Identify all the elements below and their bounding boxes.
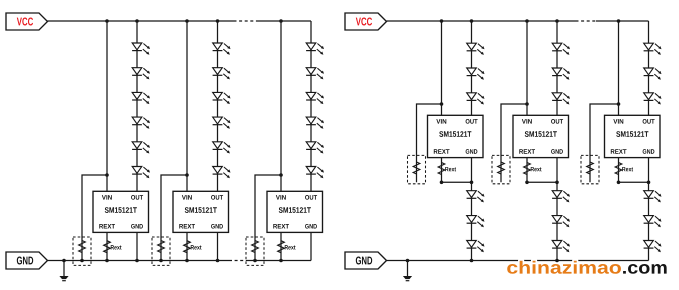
U3 pin label OUT bbox=[305, 195, 317, 200]
U1 pin label VIN bbox=[102, 195, 112, 199]
LED D33 bbox=[644, 93, 662, 105]
node GND-stem junction (left) (junction) bbox=[62, 259, 66, 263]
wire VCC bus (left, break) (dashed continuation) bbox=[234, 20, 259, 22]
U4 pin label VIN bbox=[436, 119, 446, 123]
U1 pin label OUT bbox=[131, 195, 143, 200]
LED D13 bbox=[306, 43, 324, 55]
wire VCC bus to VIN of U1 bbox=[106, 21, 108, 191]
node VIN U4 / optional resistor tap (junction) bbox=[440, 102, 444, 106]
IC U6 SM15121T bbox=[605, 115, 661, 157]
U2 pin label REXT bbox=[179, 224, 195, 228]
wire U6 VIN node to optional resistor R6 bbox=[590, 104, 619, 182]
LED D18 bbox=[306, 167, 324, 179]
wire REXT of U5 to Rext5 bbox=[527, 158, 557, 183]
node VIN U1 / optional resistor tap (junction) bbox=[105, 173, 109, 177]
node lower LED string 2 / GND bus (junction) bbox=[555, 259, 559, 263]
resistor Rext5 bbox=[524, 163, 531, 175]
U4 pin label GND bbox=[466, 149, 478, 154]
resistor R4 (optional) bbox=[413, 162, 420, 174]
LED D30 bbox=[552, 241, 570, 253]
ground symbol right bbox=[403, 261, 412, 281]
wire GND bus (left, segment 1) bbox=[48, 260, 230, 262]
wire VCC bus to VIN of U3 bbox=[280, 21, 282, 191]
node GND U5 / lifted-GND node (junction) bbox=[555, 181, 559, 185]
LED D15 bbox=[306, 92, 324, 104]
wire LED string 3 (anode rail down to OUT of U3) bbox=[310, 21, 312, 191]
IC U5 SM15121T bbox=[513, 115, 569, 157]
node GND U4 / lifted-GND node (junction) bbox=[470, 181, 474, 185]
wire REXT of U6 to Rext6 bbox=[619, 158, 649, 183]
LED D12 bbox=[213, 167, 231, 179]
U3 part name SM15121T bbox=[279, 207, 311, 213]
wire REXT of U4 to Rext4 bbox=[442, 158, 472, 183]
node lower LED string 1 / GND bus (junction) bbox=[470, 259, 474, 263]
wire VCC bus to VIN of U4 bbox=[441, 21, 443, 115]
U6 pin label GND bbox=[643, 149, 655, 154]
LED D1 bbox=[132, 43, 150, 55]
U1 part name SM15121T bbox=[105, 207, 137, 213]
wire GND of U1 to GND bus bbox=[136, 232, 138, 260]
IC U4 SM15121T bbox=[428, 115, 484, 157]
LED D34 bbox=[644, 191, 662, 203]
LED D27 bbox=[552, 93, 570, 105]
node Rext2 to GND bus (junction) bbox=[185, 259, 189, 263]
dashed box (optional) around R2 bbox=[152, 237, 170, 265]
node VIN U5 / optional resistor tap (junction) bbox=[525, 102, 529, 106]
U3 pin label VIN bbox=[276, 195, 286, 199]
U1 pin label REXT bbox=[99, 224, 115, 228]
power flag PWR3 (VCC) bbox=[345, 13, 387, 30]
LED D28 bbox=[552, 191, 570, 203]
watermark chinazimao.com bbox=[507, 261, 666, 274]
wire VCC bus (right, segment 1) bbox=[387, 20, 576, 22]
U5 part name SM15121T bbox=[525, 131, 557, 137]
node VCC bus / VIN U3 (junction) bbox=[279, 19, 283, 23]
node VCC bus / VIN U4 (junction) bbox=[440, 19, 444, 23]
IC U2 SM15121T bbox=[173, 191, 229, 232]
wire GND bus (left, break) (dashed continuation) bbox=[229, 260, 247, 262]
U2 part name SM15121T bbox=[185, 207, 217, 213]
node Rext6 / lifted-GND node (junction) bbox=[617, 181, 621, 185]
node Rext5 / lifted-GND node (junction) bbox=[525, 181, 529, 185]
wire U3 VIN node to optional resistor R3 bbox=[255, 175, 281, 261]
U3 pin label GND bbox=[305, 224, 317, 229]
node GND U2 / GND bus (junction) bbox=[216, 259, 220, 263]
value label Rext of Rext3 bbox=[285, 245, 296, 249]
wire GND of U5 to lower LED string 2 bbox=[556, 158, 558, 261]
LED D6 bbox=[132, 167, 150, 179]
LED D22 bbox=[467, 191, 485, 203]
value label Rext of Rext1 bbox=[111, 245, 122, 249]
U1 pin label GND bbox=[131, 224, 143, 229]
U5 pin label OUT bbox=[551, 119, 563, 124]
wire VCC bus (left, segment 2) bbox=[259, 20, 312, 22]
node VCC bus / LED string 2 (junction) bbox=[216, 19, 220, 23]
resistor R3 (optional) bbox=[252, 241, 259, 253]
dashed box (optional) around R5 bbox=[492, 155, 510, 183]
IC U1 SM15121T bbox=[93, 191, 149, 232]
ground symbol left bbox=[59, 261, 68, 281]
wire REXT of U3 to Rext3 bbox=[280, 232, 282, 260]
LED D35 bbox=[644, 216, 662, 228]
value label Rext of Rext2 bbox=[191, 245, 202, 249]
dashed box (optional) around R4 bbox=[408, 155, 426, 183]
U6 pin label OUT bbox=[643, 119, 655, 124]
node GND U6 / lifted-GND node (junction) bbox=[647, 181, 651, 185]
wire LED string 1 (anode rail down to OUT of U1) bbox=[136, 21, 138, 191]
wire GND bus (left, segment 2) bbox=[247, 260, 311, 262]
node VCC bus / VIN U2 (junction) bbox=[185, 19, 189, 23]
node VCC bus / VIN U1 (junction) bbox=[105, 19, 109, 23]
U6 pin label REXT bbox=[611, 149, 627, 153]
wire VCC bus to VIN of U5 bbox=[526, 21, 528, 115]
resistor R2 (optional) bbox=[158, 241, 165, 253]
wire GND of U2 to GND bus bbox=[217, 232, 219, 260]
dashed box (optional) around R3 bbox=[246, 237, 264, 265]
LED D9 bbox=[213, 92, 231, 104]
wire upper LED string 1 down to OUT of U4 bbox=[471, 21, 473, 115]
LED D29 bbox=[552, 216, 570, 228]
wire U4 VIN node to optional resistor R4 bbox=[417, 104, 442, 182]
IC U3 SM15121T bbox=[267, 191, 323, 232]
U2 pin label OUT bbox=[211, 195, 223, 200]
wire GND of U4 to lower LED string 1 bbox=[471, 158, 473, 261]
LED D3 bbox=[132, 92, 150, 104]
LED D2 bbox=[132, 68, 150, 80]
value label Rext of Rext5 bbox=[531, 167, 542, 171]
LED D17 bbox=[306, 142, 324, 154]
node VIN U3 / optional resistor tap (junction) bbox=[279, 173, 283, 177]
LED D5 bbox=[132, 142, 150, 154]
LED D14 bbox=[306, 68, 324, 80]
LED D11 bbox=[213, 142, 231, 154]
LED D20 bbox=[467, 68, 485, 80]
resistor Rext2 bbox=[184, 241, 191, 253]
LED D25 bbox=[552, 43, 570, 55]
U3 pin label REXT bbox=[273, 224, 289, 228]
node optional resistor R2 to GND bus (junction) bbox=[159, 259, 163, 263]
node GND-stem junction (right) (junction) bbox=[406, 259, 410, 263]
wire GND of U6 to lower LED string 3 bbox=[648, 158, 650, 261]
wire REXT of U2 to Rext2 bbox=[186, 232, 188, 260]
LED D31 bbox=[644, 43, 662, 55]
resistor Rext4 bbox=[438, 163, 445, 175]
node VCC bus / LED string 1 (junction) bbox=[135, 19, 139, 23]
wire VCC bus (left, segment 1) bbox=[48, 20, 234, 22]
value label Rext of Rext4 bbox=[445, 167, 456, 171]
wire LED string 2 (anode rail down to OUT of U2) bbox=[217, 21, 219, 191]
LED D32 bbox=[644, 68, 662, 80]
node optional resistor R3 to GND bus (junction) bbox=[253, 259, 257, 263]
value label Rext of Rext6 bbox=[622, 167, 633, 171]
U4 part name SM15121T bbox=[439, 131, 471, 137]
LED D8 bbox=[213, 68, 231, 80]
wire upper LED string 2 down to OUT of U5 bbox=[556, 21, 558, 115]
U2 pin label VIN bbox=[182, 195, 192, 199]
wire U1 VIN node to optional resistor R1 bbox=[82, 175, 107, 261]
U4 pin label REXT bbox=[434, 149, 450, 153]
resistor R5 (optional) bbox=[498, 162, 505, 174]
U4 pin label OUT bbox=[466, 119, 478, 124]
U5 pin label REXT bbox=[519, 149, 535, 153]
U6 part name SM15121T bbox=[616, 131, 648, 137]
wire upper LED string 3 down to OUT of U6 bbox=[648, 21, 650, 115]
node Rext4 / lifted-GND node (junction) bbox=[440, 181, 444, 185]
dashed box (optional) around R1 bbox=[73, 237, 91, 265]
LED D7 bbox=[213, 43, 231, 55]
U5 pin label VIN bbox=[522, 119, 532, 123]
U5 pin label GND bbox=[551, 149, 563, 154]
node VCC bus / upper LED string 1 (junction) bbox=[470, 19, 474, 23]
node VCC bus / VIN U6 (junction) bbox=[617, 19, 621, 23]
LED D19 bbox=[467, 43, 485, 55]
LED D24 bbox=[467, 241, 485, 253]
LED D10 bbox=[213, 117, 231, 129]
LED D36 bbox=[644, 241, 662, 253]
LED D21 bbox=[467, 93, 485, 105]
U2 pin label GND bbox=[211, 224, 223, 229]
node VCC bus / upper LED string 2 (junction) bbox=[555, 19, 559, 23]
node VIN U2 / optional resistor tap (junction) bbox=[185, 173, 189, 177]
LED D26 bbox=[552, 68, 570, 80]
power flag PWR1 (VCC) bbox=[6, 13, 48, 30]
power flag PWR4 (GND) bbox=[345, 252, 387, 269]
dashed box (optional) around R6 bbox=[581, 155, 599, 183]
node VIN U6 / optional resistor tap (junction) bbox=[617, 102, 621, 106]
wire U2 VIN node to optional resistor R2 bbox=[161, 175, 187, 261]
LED D23 bbox=[467, 216, 485, 228]
node Rext1 to GND bus (junction) bbox=[105, 259, 109, 263]
LED D4 bbox=[132, 117, 150, 129]
wire GND bus (right) bbox=[387, 260, 649, 262]
resistor Rext3 bbox=[278, 241, 285, 253]
node Rext3 to GND bus (junction) bbox=[279, 259, 283, 263]
wire GND of U3 to GND bus bbox=[310, 232, 312, 260]
wire VCC bus to VIN of U6 bbox=[618, 21, 620, 115]
wire U5 VIN node to optional resistor R5 bbox=[501, 104, 527, 182]
resistor R1 (optional) bbox=[79, 241, 86, 253]
U6 pin label VIN bbox=[613, 119, 623, 123]
wire REXT of U1 to Rext1 bbox=[106, 232, 108, 260]
node optional resistor R1 to GND bus (junction) bbox=[80, 259, 84, 263]
resistor R6 (optional) bbox=[587, 162, 594, 174]
node GND U1 / GND bus (junction) bbox=[135, 259, 139, 263]
wire VCC bus (right, segment 2) bbox=[596, 20, 649, 22]
resistor Rext6 bbox=[615, 163, 622, 175]
resistor Rext1 bbox=[104, 241, 111, 253]
wire VCC bus to VIN of U2 bbox=[186, 21, 188, 191]
node VCC bus / VIN U5 (junction) bbox=[525, 19, 529, 23]
power flag PWR2 (GND) bbox=[6, 252, 48, 269]
LED D16 bbox=[306, 117, 324, 129]
wire VCC bus (right, break) (dashed continuation) bbox=[576, 20, 597, 22]
